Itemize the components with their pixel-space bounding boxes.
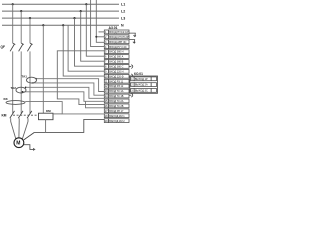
- svg-text:ВХОД ПУСК 1Р: ВХОД ПУСК 1Р: [109, 30, 128, 34]
- module KO.01 body: [130, 76, 158, 93]
- connector hook row10: [129, 74, 133, 78]
- svg-text:TA2: TA2: [11, 86, 17, 90]
- wire L2 rail: [2, 10, 119, 12]
- node junction L1 tap: [85, 3, 87, 5]
- ground PE hook: [24, 145, 33, 150]
- wire phase2 drop: [20, 11, 22, 43]
- contactor KM linkage dashed: [13, 114, 38, 116]
- connector hook row8: [129, 65, 133, 69]
- module KO.01 pin labels: [131, 78, 148, 93]
- svg-text:KK: KK: [4, 97, 9, 101]
- svg-text:ВХОД СТОП 2Р: ВХОД СТОП 2Р: [109, 35, 129, 39]
- module A3.01 pin numbers and labels: [105, 30, 129, 123]
- relay KK heater oval: [6, 101, 25, 105]
- svg-text:L2: L2: [121, 10, 125, 14]
- node junction L2 phase tap: [20, 10, 22, 12]
- contactor KM pole2: [18, 111, 23, 118]
- svg-text:ВЫХОД 2А: ВЫХОД 2А: [135, 84, 148, 87]
- node junction L2 tap: [80, 10, 82, 12]
- svg-text:L3: L3: [121, 17, 125, 21]
- connector hook row14: [129, 93, 133, 97]
- wire row1 stub: [99, 31, 105, 33]
- wire coil bottom drop: [45, 120, 47, 133]
- svg-text:ВЫХОД 3С: ВЫХОД 3С: [135, 90, 148, 93]
- svg-text:L1: L1: [121, 3, 125, 7]
- svg-text:ВХОД ТК 2А: ВХОД ТК 2А: [109, 100, 123, 103]
- wire L3 rail: [2, 17, 119, 19]
- wire N feed row10: [63, 25, 104, 76]
- wire phase3 drop: [29, 18, 31, 43]
- wire N rail: [2, 24, 119, 26]
- module A3.01 rows: [104, 30, 129, 123]
- wire motor PE diagonal: [23, 132, 34, 140]
- svg-text:ВХОД РЗ 11: ВХОД РЗ 11: [109, 80, 123, 83]
- wire row2 stub: [96, 36, 104, 38]
- wire phase2 mid: [20, 51, 22, 113]
- connector hook row2: [129, 40, 135, 44]
- motor M1: [14, 138, 24, 148]
- svg-text:ВЫХОД КМ 1: ВЫХОД КМ 1: [109, 115, 125, 118]
- wire L1 feed row6: [86, 4, 104, 56]
- svg-text:ВХОД 380 Н: ВХОД 380 Н: [109, 51, 123, 54]
- svg-text:ВХОД 380 А: ВХОД 380 А: [109, 56, 123, 59]
- svg-text:ВХОД ТК 2В: ВХОД ТК 2В: [109, 105, 123, 108]
- contactor KM pole3: [27, 111, 32, 118]
- node junction N tap c: [62, 24, 64, 26]
- wire KK contact out: [25, 102, 104, 114]
- node junction row2: [95, 36, 97, 38]
- breaker QF pole3: [27, 43, 32, 51]
- svg-text:KM: KM: [2, 114, 7, 118]
- breaker QF pole2: [19, 43, 24, 51]
- transformer TA2: [16, 87, 26, 93]
- svg-text:ВХОД 380 С: ВХОД 380 С: [109, 66, 123, 69]
- svg-text:M: M: [16, 141, 20, 147]
- svg-text:ВЫХОД КМ 2: ВЫХОД КМ 2: [109, 120, 125, 123]
- svg-text:ВХОД 220 Н: ВХОД 220 Н: [109, 70, 123, 73]
- svg-text:ВХОД РЛ 17: ВХОД РЛ 17: [109, 110, 124, 113]
- wire L2 feed row7: [81, 11, 105, 61]
- node junction L3 tap: [73, 17, 75, 19]
- node junction N tap coil: [42, 24, 44, 26]
- breaker QF pole1: [10, 43, 15, 51]
- svg-text:ВЫХОД 1Р: ВЫХОД 1Р: [135, 78, 148, 81]
- wire coil to row18: [53, 113, 62, 115]
- wire TA2 sec a: [26, 87, 104, 98]
- wire branch row17: [86, 101, 105, 108]
- wire phase1 drop: [12, 4, 14, 43]
- coil KM box: [39, 113, 54, 120]
- svg-text:KM: KM: [46, 109, 51, 113]
- svg-text:ВХОД 380 В: ВХОД 380 В: [109, 61, 123, 64]
- svg-text:ВХОД РУЧ 4С: ВХОД РУЧ 4С: [109, 45, 126, 49]
- wire N feed row9: [68, 25, 104, 71]
- wire TA2 sec b: [23, 92, 104, 102]
- svg-text:N: N: [121, 24, 124, 28]
- wire L3 feed row8: [75, 18, 105, 66]
- svg-text:ВХОД 220 Ф: ВХОД 220 Ф: [109, 75, 123, 78]
- wire phase1 mid: [12, 51, 14, 113]
- module KO.01 rows: [131, 77, 157, 92]
- contactor KM pole1: [10, 111, 15, 118]
- node junction L3 phase tap: [29, 17, 31, 19]
- svg-text:QF: QF: [1, 45, 5, 49]
- svg-text:TA1: TA1: [22, 75, 28, 79]
- wire top feed row3: [96, 0, 104, 42]
- transformer TA1: [27, 77, 37, 83]
- connector hook row1: [129, 33, 136, 37]
- svg-text:ВХОД РЗ 12: ВХОД РЗ 12: [109, 85, 124, 88]
- wire motor lead1: [11, 122, 16, 139]
- wire N drop to coil: [42, 25, 44, 113]
- svg-text:ВХОД АВТ 3С: ВХОД АВТ 3С: [109, 40, 126, 44]
- node junction L1 phase tap: [12, 3, 14, 5]
- wire TA1 sec a: [37, 79, 105, 92]
- wire motor lead2: [18, 122, 20, 138]
- wire phase3 mid: [29, 51, 31, 113]
- svg-text:КО.01: КО.01: [134, 72, 143, 76]
- svg-text:A3.01: A3.01: [109, 26, 118, 30]
- wire riser feed row5: [57, 51, 104, 105]
- svg-text:ВХОД ТК 1В: ВХОД ТК 1В: [109, 95, 123, 98]
- svg-text:ВХОД ТК 1А: ВХОД ТК 1А: [109, 90, 123, 93]
- wire motor lead3: [22, 122, 28, 140]
- wire TA1 sec b: [33, 83, 104, 95]
- wire coil return bottom: [34, 119, 104, 132]
- wire L1 rail: [2, 3, 119, 5]
- wire top feed row4: [91, 0, 105, 47]
